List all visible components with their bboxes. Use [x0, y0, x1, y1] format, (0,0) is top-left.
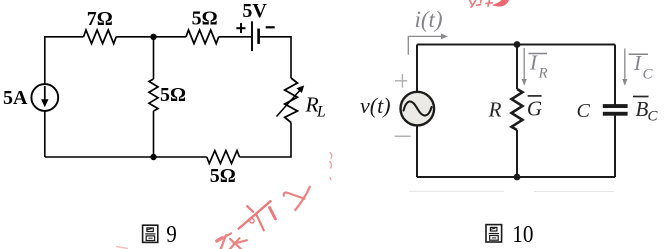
scan artifact faint line right — [534, 191, 614, 193]
capacitor C top plate — [603, 104, 628, 108]
svg-text:9: 9 — [166, 222, 176, 248]
watermark stroke fragments top — [470, 0, 493, 7]
wire: left bottom vertical to current source — [44, 111, 46, 157]
label IC with overline — [629, 51, 654, 83]
watermark swoosh top — [492, 0, 509, 7]
resistor R (right circuit) zigzag — [512, 89, 523, 130]
wire right branch above capacitor — [614, 45, 616, 105]
capacitor C bottom plate — [603, 112, 628, 116]
svg-text:R: R — [538, 66, 548, 82]
svg-text:5Ω: 5Ω — [192, 8, 218, 30]
battery minus sign — [266, 26, 275, 28]
source vt plus sign — [395, 74, 407, 88]
resistor R 5ohm middle zigzag — [149, 79, 158, 111]
battery plus sign — [236, 23, 245, 33]
caption: figure 9 glyph box — [143, 225, 158, 242]
svg-text:C: C — [648, 108, 659, 124]
resistor R 5ohm top zigzag — [186, 30, 219, 44]
svg-text:G: G — [527, 97, 542, 121]
wire: bottom 5ohm to bottom-left corner — [45, 156, 207, 158]
watermark tiny marks right — [330, 153, 332, 180]
source vt minus sign — [395, 135, 411, 137]
svg-text:v(t): v(t) — [360, 93, 391, 118]
wire: 7ohm to top node — [116, 36, 186, 38]
wire right branch below capacitor — [614, 116, 616, 178]
current IR arrow — [522, 48, 527, 86]
wire middle branch bottom — [153, 111, 155, 157]
wire left branch above source — [416, 45, 418, 92]
wire top-left: left corner to 7ohm resistor — [45, 37, 84, 85]
resistor R 7ohm zigzag — [84, 30, 117, 44]
svg-text:i(t): i(t) — [414, 7, 442, 32]
RL variable-resistor arrow — [277, 85, 305, 116]
current source I1 arrow — [41, 86, 48, 107]
current source I1 circle — [31, 84, 58, 111]
wire: RL to bottom-right corner — [240, 123, 292, 158]
svg-text:10: 10 — [512, 222, 533, 248]
label G with overline — [527, 96, 542, 121]
svg-text:5V: 5V — [242, 0, 267, 22]
svg-text:C: C — [643, 67, 654, 83]
source vt sine wave — [404, 101, 432, 115]
svg-text:5A: 5A — [3, 87, 28, 109]
wire middle branch below resistor — [516, 130, 518, 177]
svg-text:5Ω: 5Ω — [160, 84, 186, 106]
svg-text:7Ω: 7Ω — [87, 8, 113, 30]
watermark faint mark bottom-left — [116, 247, 128, 249]
current IC arrow — [622, 49, 627, 86]
resistor RL zigzag — [285, 78, 298, 123]
node B bottom junction dot — [150, 154, 156, 160]
node D bottom junction dot — [514, 174, 521, 181]
wire: 5ohm to battery — [219, 36, 252, 38]
wire middle branch top — [153, 37, 155, 79]
resistor R 5ohm bottom zigzag — [207, 151, 240, 164]
battery V1 5V long plate — [251, 21, 253, 51]
watermark char partial bottom-left — [217, 233, 247, 249]
svg-text:L: L — [316, 104, 326, 121]
wire middle branch above resistor — [516, 45, 518, 90]
node A top junction dot — [150, 34, 156, 40]
svg-text:5Ω: 5Ω — [210, 165, 236, 187]
wire top of right circuit — [417, 44, 615, 46]
wire left branch below source — [416, 126, 418, 178]
svg-text:R: R — [488, 98, 502, 122]
node C top junction dot — [514, 41, 521, 48]
wire: battery to top-right corner — [259, 37, 291, 78]
current it direction line with arrow — [408, 34, 448, 55]
wire bottom of right circuit — [417, 176, 615, 178]
label IR with overline — [528, 51, 547, 82]
svg-text:I: I — [633, 51, 642, 75]
watermark char v-tail — [284, 187, 310, 210]
watermark char shi — [239, 201, 276, 230]
svg-text:I: I — [529, 51, 538, 75]
label BC with overline — [633, 97, 659, 125]
svg-text:C: C — [577, 100, 591, 122]
scan artifact faint line left — [409, 190, 504, 192]
source vt circle — [401, 92, 435, 126]
battery V1 5V short plate — [257, 29, 260, 44]
caption: figure 10 glyph box — [486, 225, 502, 242]
